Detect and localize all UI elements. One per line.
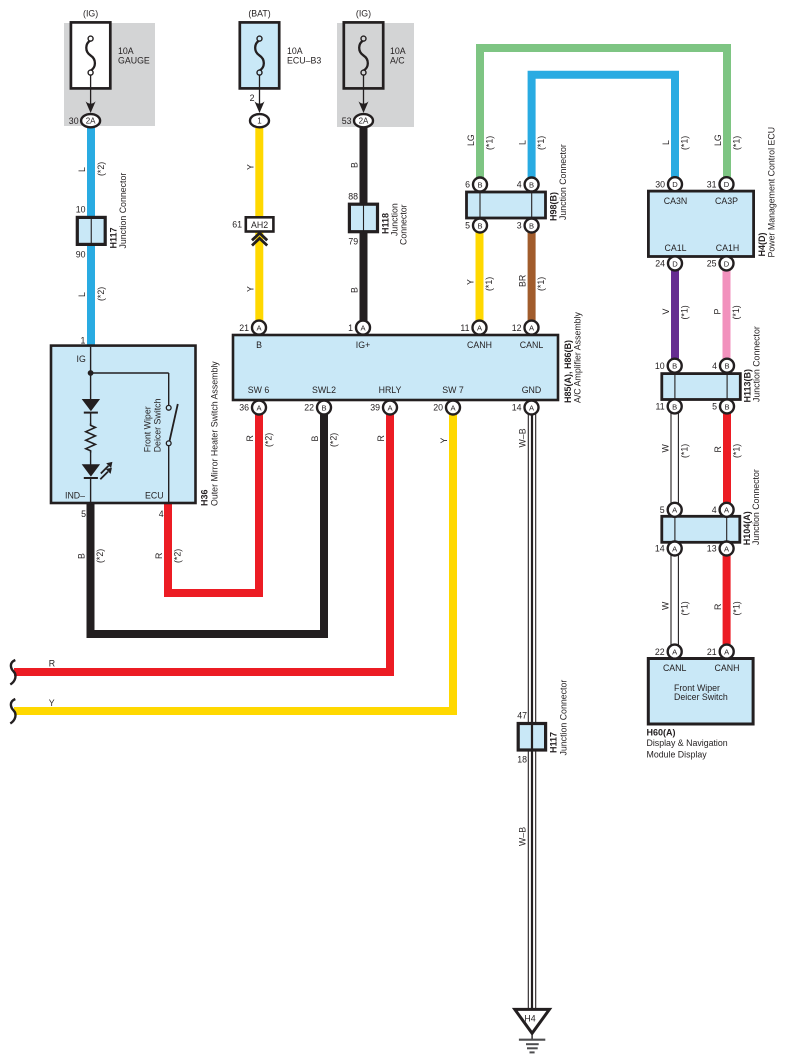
svg-text:10A: 10A [287, 46, 303, 56]
svg-text:D: D [724, 259, 730, 268]
svg-text:10A: 10A [390, 46, 406, 56]
svg-text:B: B [76, 553, 86, 559]
svg-text:47: 47 [517, 710, 527, 720]
svg-text:R: R [376, 435, 386, 441]
svg-text:(*2): (*2) [96, 287, 106, 301]
svg-text:90: 90 [76, 249, 86, 259]
svg-text:2A: 2A [86, 117, 96, 126]
svg-text:B: B [529, 180, 534, 189]
svg-text:88: 88 [348, 191, 358, 201]
svg-text:H4(D): H4(D) [757, 232, 767, 256]
svg-text:(*2): (*2) [96, 162, 106, 176]
svg-text:1: 1 [348, 323, 353, 333]
svg-text:13: 13 [707, 544, 717, 554]
svg-text:R: R [49, 658, 55, 668]
svg-text:36: 36 [239, 403, 249, 413]
svg-text:Y: Y [246, 164, 256, 170]
svg-text:B: B [724, 362, 729, 371]
svg-text:CANL: CANL [663, 663, 687, 673]
svg-text:H85(A), H86(B): H85(A), H86(B) [563, 340, 573, 403]
svg-text:W: W [660, 444, 670, 453]
svg-text:A/C Amplifier Assembly: A/C Amplifier Assembly [573, 311, 583, 403]
svg-text:IG: IG [77, 354, 86, 364]
svg-text:H117: H117 [109, 227, 119, 248]
svg-text:LG: LG [713, 134, 723, 146]
svg-text:25: 25 [707, 259, 717, 269]
svg-text:Junction Connector: Junction Connector [558, 144, 568, 220]
svg-text:(*2): (*2) [172, 549, 182, 563]
svg-text:D: D [672, 180, 678, 189]
svg-text:(*2): (*2) [263, 433, 273, 447]
svg-text:HRLY: HRLY [379, 385, 402, 395]
svg-text:W: W [660, 601, 670, 610]
svg-text:B: B [310, 436, 320, 442]
svg-text:(*1): (*1) [731, 136, 741, 150]
svg-text:SW 6: SW 6 [248, 385, 270, 395]
svg-text:Outer Mirror Heater Switch Ass: Outer Mirror Heater Switch Assembly [210, 361, 220, 506]
svg-text:21: 21 [707, 647, 717, 657]
svg-text:11: 11 [460, 323, 469, 333]
svg-text:11: 11 [656, 402, 665, 412]
svg-text:30: 30 [69, 116, 79, 126]
svg-text:Front Wiper: Front Wiper [143, 406, 153, 452]
svg-text:6: 6 [465, 180, 470, 190]
svg-text:10: 10 [655, 361, 665, 371]
svg-text:Junction Connector: Junction Connector [752, 326, 762, 402]
svg-text:Deicer Switch: Deicer Switch [674, 692, 728, 702]
svg-text:1: 1 [257, 117, 262, 126]
svg-text:Junction Connector: Junction Connector [559, 680, 569, 756]
svg-text:14: 14 [655, 544, 665, 554]
svg-text:5: 5 [465, 221, 470, 231]
svg-text:W–B: W–B [518, 827, 528, 846]
svg-text:L: L [517, 140, 527, 145]
svg-text:CA3N: CA3N [664, 196, 687, 206]
svg-text:(IG): (IG) [83, 9, 98, 19]
svg-text:IG+: IG+ [356, 340, 370, 350]
svg-text:R: R [713, 446, 723, 452]
svg-text:Y: Y [246, 286, 256, 292]
svg-text:B: B [349, 162, 359, 168]
svg-text:CANL: CANL [520, 340, 544, 350]
svg-text:BR: BR [517, 275, 527, 287]
svg-text:3: 3 [517, 221, 522, 231]
svg-text:53: 53 [342, 116, 352, 126]
svg-text:B: B [672, 402, 677, 411]
svg-text:B: B [477, 180, 482, 189]
svg-text:A/C: A/C [390, 56, 405, 66]
svg-text:Y: Y [439, 438, 449, 444]
svg-text:4: 4 [159, 509, 164, 519]
svg-text:AH2: AH2 [251, 220, 268, 230]
svg-text:IND–: IND– [65, 490, 85, 500]
svg-text:2A: 2A [359, 117, 369, 126]
svg-text:Power Management Control ECU: Power Management Control ECU [767, 127, 777, 258]
svg-text:22: 22 [304, 403, 314, 413]
svg-text:L: L [661, 140, 671, 145]
svg-text:B: B [672, 362, 677, 371]
svg-text:SW 7: SW 7 [442, 385, 464, 395]
svg-text:L: L [77, 167, 87, 172]
svg-text:GAUGE: GAUGE [118, 56, 150, 66]
svg-text:24: 24 [655, 259, 665, 269]
svg-text:Module Display: Module Display [647, 750, 708, 760]
svg-text:R: R [713, 604, 723, 610]
svg-text:CANH: CANH [467, 340, 492, 350]
svg-text:B: B [349, 287, 359, 293]
svg-text:GND: GND [522, 385, 542, 395]
svg-text:(*1): (*1) [731, 601, 741, 615]
svg-text:CA3P: CA3P [715, 196, 738, 206]
svg-text:(*1): (*1) [731, 444, 741, 458]
svg-text:(*1): (*1) [536, 136, 546, 150]
svg-text:Junction Connector: Junction Connector [118, 173, 128, 249]
svg-text:Connector: Connector [399, 204, 409, 245]
svg-text:LG: LG [466, 134, 476, 146]
svg-text:(BAT): (BAT) [248, 9, 270, 19]
svg-text:14: 14 [512, 403, 522, 413]
svg-text:Deicer Switch: Deicer Switch [152, 398, 162, 452]
svg-text:(*1): (*1) [679, 601, 689, 615]
svg-text:(*1): (*1) [731, 305, 741, 319]
svg-text:1: 1 [80, 336, 85, 346]
svg-text:D: D [724, 180, 730, 189]
svg-text:ECU–B3: ECU–B3 [287, 56, 321, 66]
svg-text:4: 4 [712, 361, 717, 371]
svg-text:79: 79 [348, 237, 358, 247]
svg-text:5: 5 [660, 505, 665, 515]
svg-text:D: D [672, 259, 678, 268]
svg-text:B: B [477, 221, 482, 230]
svg-text:12: 12 [512, 323, 522, 333]
svg-text:10A: 10A [118, 46, 134, 56]
svg-text:(IG): (IG) [356, 9, 371, 19]
svg-text:CANH: CANH [715, 663, 740, 673]
svg-text:39: 39 [370, 403, 380, 413]
svg-text:V: V [661, 309, 671, 315]
svg-text:H36: H36 [200, 489, 210, 506]
svg-text:22: 22 [655, 647, 665, 657]
svg-text:H60(A): H60(A) [647, 727, 676, 737]
svg-text:H98(B): H98(B) [549, 192, 559, 221]
svg-text:Junction Connector: Junction Connector [751, 469, 761, 545]
svg-text:30: 30 [655, 179, 665, 189]
svg-text:4: 4 [712, 505, 717, 515]
svg-text:21: 21 [239, 323, 249, 333]
svg-text:5: 5 [712, 402, 717, 412]
svg-text:B: B [256, 340, 262, 350]
svg-text:20: 20 [433, 403, 443, 413]
svg-text:W–B: W–B [518, 428, 528, 447]
svg-text:18: 18 [517, 755, 527, 765]
svg-text:B: B [529, 221, 534, 230]
svg-text:Display & Navigation: Display & Navigation [647, 738, 728, 748]
svg-text:ECU: ECU [145, 490, 164, 500]
svg-text:B: B [321, 403, 326, 412]
svg-text:(*1): (*1) [484, 136, 494, 150]
svg-text:Y: Y [49, 698, 55, 708]
svg-text:Y: Y [465, 279, 475, 285]
svg-text:(*1): (*1) [679, 444, 689, 458]
svg-text:P: P [712, 309, 722, 315]
svg-text:5: 5 [81, 509, 86, 519]
svg-text:(*2): (*2) [328, 433, 338, 447]
svg-text:H4: H4 [524, 1014, 535, 1024]
svg-text:SWL2: SWL2 [312, 385, 336, 395]
svg-text:31: 31 [707, 179, 717, 189]
svg-text:(*1): (*1) [484, 277, 494, 291]
svg-text:R: R [154, 553, 164, 559]
svg-text:R: R [245, 435, 255, 441]
svg-text:10: 10 [76, 204, 86, 214]
svg-text:(*2): (*2) [95, 549, 105, 563]
svg-text:2: 2 [250, 93, 255, 103]
svg-text:(*1): (*1) [679, 305, 689, 319]
svg-text:4: 4 [517, 180, 522, 190]
svg-text:(*1): (*1) [536, 277, 546, 291]
svg-text:B: B [724, 402, 729, 411]
svg-text:CA1H: CA1H [716, 243, 739, 253]
svg-text:CA1L: CA1L [664, 243, 686, 253]
svg-text:(*1): (*1) [679, 136, 689, 150]
svg-text:61: 61 [232, 220, 242, 230]
svg-text:L: L [77, 292, 87, 297]
svg-text:H117: H117 [549, 732, 559, 753]
